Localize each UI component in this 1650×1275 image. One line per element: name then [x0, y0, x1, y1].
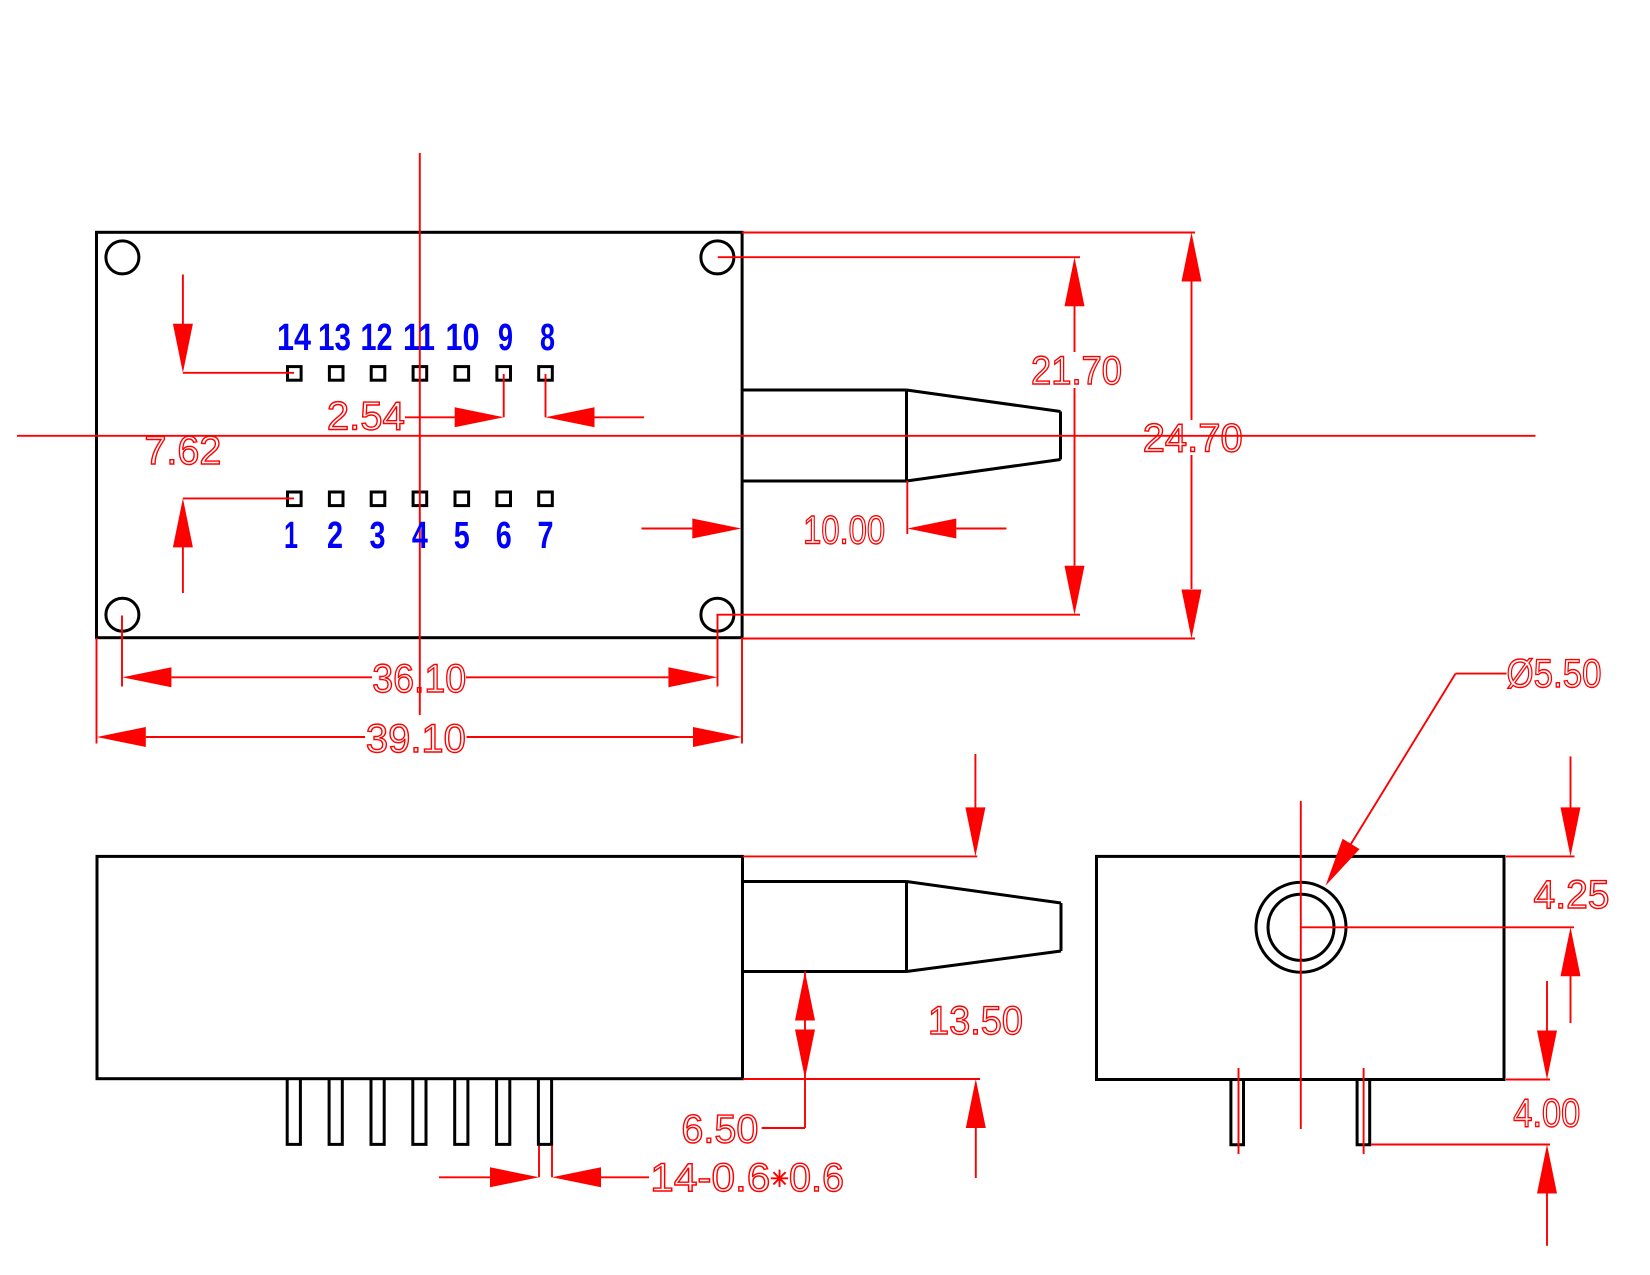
svg-text:11: 11 [403, 317, 435, 359]
svg-text:5: 5 [454, 515, 470, 557]
svg-text:3: 3 [370, 515, 386, 557]
top view pin pad 2 [329, 492, 343, 506]
top view pin pad 13 [329, 367, 343, 381]
svg-text:21.70: 21.70 [1031, 349, 1122, 393]
dim 36.10 left arrowhead [122, 667, 171, 687]
dim asterisk star [771, 1170, 788, 1187]
end view fiber boot outer circle [1256, 882, 1346, 972]
side view pin 4 [413, 1079, 426, 1145]
dim 24.70 top extension [742, 232, 1195, 234]
dim 6.50 up arrowhead [795, 972, 815, 1021]
dim 39.10 left extension [96, 638, 98, 744]
dim 4.25 upper arrowhead [1561, 807, 1581, 856]
side view pin 6 [497, 1079, 510, 1145]
side view pin 2 [329, 1079, 342, 1145]
dim 4.00 upper arrow line [1546, 981, 1548, 1035]
top view pin pad 6 [497, 492, 511, 506]
dim 4.25 lower arrowhead [1561, 927, 1581, 976]
dim 2.54 extension line pad 9 [503, 374, 505, 417]
top view pin pad 11 [413, 367, 427, 381]
dim 24.70 dimension line lower [1191, 455, 1193, 589]
dim 24.70 down arrowhead [1182, 590, 1202, 639]
dim 4.00 lower arrow line [1546, 1190, 1548, 1246]
dim 21.70 top extension from hole center [718, 256, 1080, 258]
end view pin left centerline [1238, 1068, 1240, 1154]
dim 4.25 upper arrow line [1570, 756, 1572, 812]
dim 39.10 right extension [741, 638, 743, 744]
svg-text:13.50: 13.50 [928, 999, 1023, 1043]
side view pin 3 [371, 1079, 384, 1145]
dim dia 5.50 leader arrowhead [1326, 839, 1360, 886]
end view package body [1097, 856, 1505, 1079]
svg-text:12: 12 [361, 317, 393, 359]
svg-text:9: 9 [498, 317, 513, 359]
dim 13.50 lower arrowhead [966, 1079, 986, 1128]
dim 39.10 dimension line left [146, 736, 365, 738]
dim 13.50 bottom extension [743, 1078, 980, 1080]
dim 39.10 right arrowhead [693, 727, 742, 747]
svg-text:14-0.6: 14-0.6 [650, 1156, 770, 1200]
dim 7.62 upper arrow line [182, 275, 184, 331]
svg-text:14: 14 [277, 317, 311, 359]
dim 36.10 right extension [717, 614, 719, 687]
side view package body [97, 856, 743, 1078]
dim 21.70 dimension line upper [1074, 306, 1076, 352]
dim 4.00 upper arrowhead [1537, 1031, 1557, 1080]
dim dia 5.50 leader diagonal [1338, 674, 1456, 865]
dim 24.70 dimension line upper [1191, 282, 1193, 421]
svg-text:7: 7 [538, 515, 554, 557]
svg-text:10: 10 [446, 317, 480, 359]
top view fiber snout [742, 390, 1061, 481]
side view fiber snout [743, 882, 1062, 972]
dim 24.70 bottom extension [742, 638, 1196, 640]
end view pin left [1231, 1080, 1244, 1145]
svg-text:4.25: 4.25 [1534, 873, 1610, 917]
svg-text:6: 6 [496, 515, 512, 557]
top view vertical centerline [419, 153, 421, 715]
dim 14-0.6x0.6 extension pin7 right edge [551, 1146, 553, 1178]
top view package body [97, 232, 743, 637]
dim 4.25 extension from circle center [1301, 926, 1574, 928]
svg-text:1: 1 [284, 515, 298, 557]
dim 24.70 up arrowhead [1182, 233, 1202, 282]
top view mounting hole top-right [701, 241, 734, 274]
dim 4.00 top extension [1506, 1079, 1550, 1081]
top view pin pad 9 [497, 367, 511, 381]
top view pin pad 3 [371, 492, 385, 506]
dim 36.10 left extension [121, 616, 123, 687]
dim 21.70 dimension line lower [1074, 388, 1076, 566]
dim 4.25 top extension [1506, 855, 1575, 857]
dim 14-0.6x0.6 extension pin7 left edge [538, 1146, 540, 1178]
top view pin pad 4 [413, 492, 427, 506]
dim 36.10 dimension line right [466, 676, 668, 678]
svg-text:0.6: 0.6 [789, 1156, 844, 1200]
dim 10.00 left tail [642, 528, 698, 530]
end view vertical centerline [1300, 801, 1302, 1129]
dim 10.00 right-pointing arrowhead [692, 519, 741, 539]
dim 13.50 lower arrow line [975, 1124, 977, 1178]
dim 39.10 dimension line right [467, 736, 694, 738]
svg-text:6.50: 6.50 [681, 1107, 758, 1151]
dim 10.00 right tail [956, 528, 1006, 530]
top view pin pad 8 [539, 367, 553, 381]
dim 6.50 leader to text [762, 1127, 805, 1129]
dim 7.62 upper arrowhead [173, 324, 193, 373]
dim 21.70 bottom extension from hole center [717, 614, 1081, 616]
svg-text:7.62: 7.62 [144, 429, 221, 473]
top view pin pad 5 [455, 492, 469, 506]
dim 7.62 upper leader to pad 14 [183, 372, 294, 374]
dim 2.54 dimension line right [595, 416, 645, 418]
dim 14-0.6x0.6 right-pointing arrowhead [490, 1167, 539, 1187]
top view mounting hole bottom-right [701, 598, 734, 631]
dim 2.54 dimension line left [405, 416, 460, 418]
dim 2.54 left-pointing arrowhead [546, 407, 595, 427]
dim 13.50 upper arrowhead [965, 807, 985, 856]
dim 6.50 dimension line [804, 972, 806, 1129]
dim 14-0.6x0.6 right tail [601, 1176, 649, 1178]
dim 39.10 left arrowhead [97, 727, 146, 747]
dim 13.50 top extension [743, 855, 977, 857]
end view fiber boot inner circle [1268, 894, 1334, 960]
dim 4.00 bottom extension [1371, 1144, 1550, 1146]
dim 4.00 lower arrowhead [1537, 1145, 1557, 1194]
top view mounting hole top-left [106, 241, 139, 274]
svg-text:2: 2 [327, 515, 343, 557]
dim 36.10 right arrowhead [668, 667, 717, 687]
top view pin pad 10 [455, 367, 469, 381]
dim 14-0.6x0.6 left tail [439, 1176, 495, 1178]
side view pin 1 [287, 1079, 300, 1145]
dim 10.00 extension line at taper start [906, 481, 908, 534]
dim 7.62 lower arrowhead [173, 498, 193, 547]
top view pin pad 12 [371, 367, 385, 381]
side view pin 7 [538, 1079, 551, 1145]
dim 2.54 right-pointing arrowhead [455, 407, 504, 427]
top view pin pad 14 [288, 367, 302, 381]
top view horizontal centerline [17, 435, 1536, 437]
svg-text:Ø5.50: Ø5.50 [1507, 652, 1602, 696]
end view pin right [1357, 1080, 1370, 1145]
svg-text:10.00: 10.00 [803, 509, 885, 553]
top view pin pad 1 [288, 492, 302, 506]
dim 7.62 lower arrow line [182, 541, 184, 593]
dim dia 5.50 leader horizontal [1456, 673, 1507, 675]
dim 4.25 lower arrow line [1570, 972, 1572, 1023]
dim 36.10 dimension line left [171, 676, 372, 678]
svg-text:13: 13 [318, 317, 351, 359]
dim 21.70 up arrowhead [1065, 257, 1085, 306]
dim 6.50 down arrowhead [795, 1030, 815, 1079]
dim 13.50 upper arrow line [974, 754, 976, 812]
svg-text:4.00: 4.00 [1513, 1091, 1580, 1135]
svg-text:2.54: 2.54 [327, 395, 405, 439]
svg-text:39.10: 39.10 [366, 717, 466, 761]
dim 14-0.6x0.6 left-pointing arrowhead [552, 1167, 601, 1187]
top view mounting hole bottom-left [106, 598, 139, 631]
svg-text:24.70: 24.70 [1143, 417, 1243, 461]
dim 2.54 extension line pad 8 [545, 374, 547, 417]
dim 10.00 left-pointing arrowhead [907, 519, 956, 539]
side view pin 5 [455, 1079, 468, 1145]
svg-text:8: 8 [540, 317, 555, 359]
svg-text:36.10: 36.10 [372, 657, 466, 701]
svg-text:4: 4 [412, 515, 428, 557]
top view pin pad 7 [539, 492, 553, 506]
end view pin right centerline [1363, 1068, 1365, 1154]
dim 7.62 lower leader to pad 1 [183, 497, 294, 499]
dim 21.70 down arrowhead [1065, 566, 1085, 615]
